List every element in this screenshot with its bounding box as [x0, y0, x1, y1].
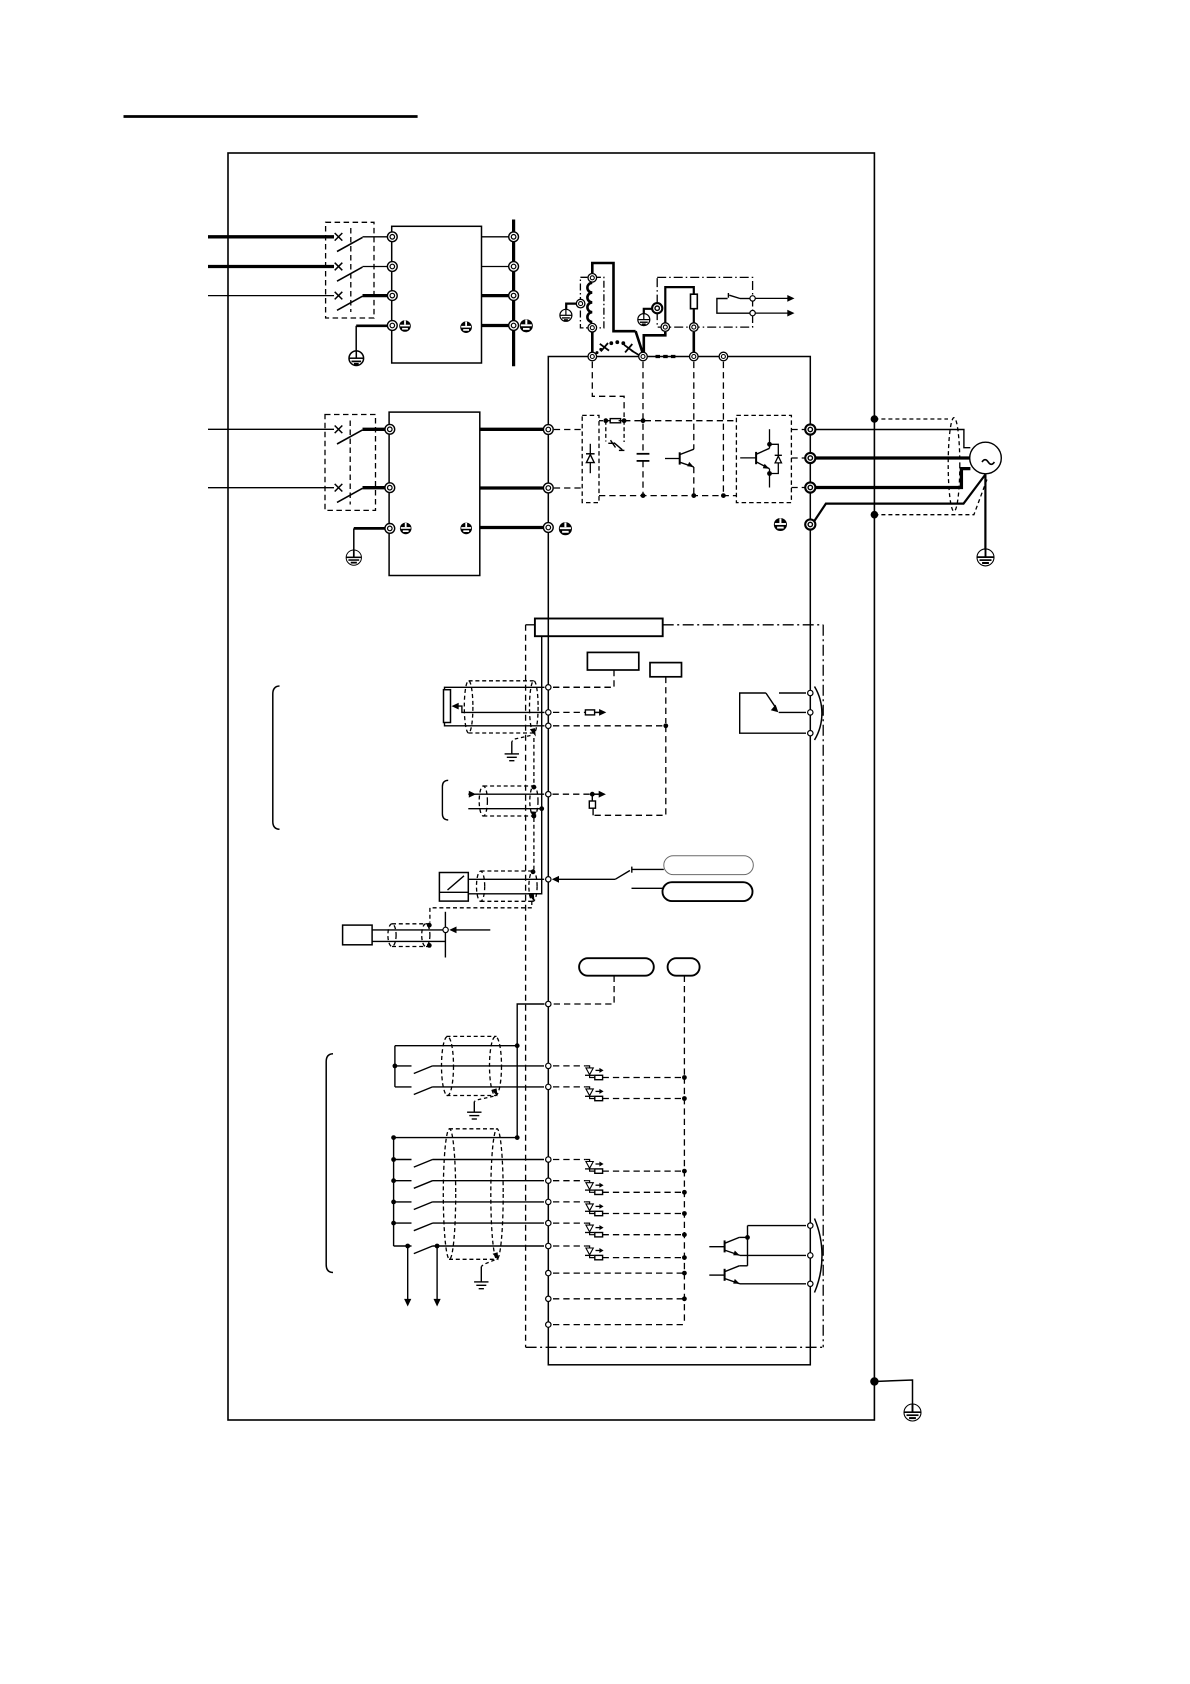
- charging resistor link from rectifier: [599, 420, 605, 422]
- inverter input bus bar: [512, 220, 515, 367]
- filter1 terminal in G: [387, 321, 397, 331]
- wire L2 input: [208, 265, 334, 268]
- terminal X5: [546, 1243, 551, 1248]
- capacitor lower dashed: [642, 461, 644, 496]
- FM arrow: [552, 876, 615, 883]
- enclosure ground dot: [870, 1377, 878, 1385]
- filter1 earth: [349, 351, 364, 366]
- rectifier box: [582, 415, 599, 502]
- wire DCR diagonal to terminal: [636, 331, 643, 353]
- Y bracket: [815, 1219, 823, 1293]
- pot shield ground: [505, 742, 519, 761]
- EMC filter 2 box: [389, 412, 480, 575]
- filter1 terminal in L1: [387, 232, 397, 242]
- run command stadium: [579, 958, 654, 976]
- meter shield drain arrow: [529, 894, 535, 902]
- shield junction dot bottom: [871, 511, 879, 519]
- wire terminal 11: [445, 723, 545, 726]
- DC reactor DCR box: [580, 277, 604, 328]
- DBR internal wire: [665, 287, 694, 322]
- motor: [970, 442, 1002, 474]
- thermal output wire B: [755, 310, 794, 317]
- CM dashed row: [553, 1271, 687, 1276]
- IGBT freewheel diode: [770, 444, 782, 473]
- filter1 output wire 2: [482, 266, 510, 268]
- group1 bus dot: [515, 1043, 520, 1048]
- terminal 11: [546, 723, 551, 728]
- DBR resistor lead: [693, 309, 695, 323]
- terminal X3: [546, 1199, 551, 1204]
- pulse device box: [343, 925, 373, 945]
- filter1 terminal in L2: [387, 262, 397, 272]
- motor cable shield ellipse: [948, 418, 960, 512]
- MCCB1 pole 2 contact: [335, 263, 387, 282]
- shield chain dashed from pot shield: [533, 738, 535, 785]
- DC bus top dashed: [624, 420, 736, 422]
- MCCB2 pole 2 contact: [335, 484, 385, 502]
- filter2 earth: [346, 550, 361, 565]
- run command link: [553, 976, 614, 1004]
- terminal REV: [546, 1084, 551, 1089]
- terminal 30B: [808, 690, 813, 695]
- pulse arrow: [449, 927, 490, 934]
- group2 rail dots: [391, 1157, 396, 1162]
- EMC filter 1 box: [392, 226, 482, 363]
- filter2 terminal in G: [385, 524, 395, 534]
- bus terminal S: [509, 262, 519, 272]
- filter1 output wire G: [482, 324, 510, 327]
- pot shield drain dashes: [512, 736, 531, 742]
- filter2 ground wire: [354, 527, 385, 530]
- terminal Y2: [808, 1281, 813, 1286]
- group2 common bus: [394, 1137, 518, 1139]
- group1 common bus: [395, 1045, 517, 1047]
- bus terminal T: [509, 291, 519, 301]
- terminal DX+: [546, 1296, 551, 1301]
- switch FWD: [395, 1066, 544, 1074]
- charging resistor node dots: [603, 418, 608, 423]
- common rail drop: [516, 1046, 518, 1138]
- IGBT emitter line: [769, 469, 771, 488]
- dashed input L1 to rectifier: [554, 429, 582, 431]
- opto X3: [553, 1202, 687, 1216]
- DBR ground wire: [644, 309, 653, 314]
- DBR ground terminal: [652, 303, 662, 313]
- meter shield top dot: [531, 869, 536, 874]
- shield chain dot: [532, 785, 537, 790]
- braking transistor: [665, 449, 694, 467]
- wire DBR2 to DB: [692, 332, 695, 353]
- terminal 30A: [808, 710, 813, 715]
- group1 shield drain dashes: [474, 1096, 493, 1101]
- filter1 ground wire: [356, 324, 387, 327]
- FM option 2 stadium: [663, 882, 753, 901]
- MCCB1 pole 1 contact: [335, 233, 387, 252]
- switch X1: [394, 1160, 544, 1168]
- shield junction dot top: [871, 415, 879, 423]
- Y1 collector link: [739, 1236, 747, 1238]
- relay 30 common path: [740, 693, 806, 733]
- dashed W out: [791, 487, 805, 489]
- X5 tap dots: [405, 1244, 410, 1249]
- bus PE symbol: [520, 319, 533, 332]
- node 11 drop dashed: [593, 726, 666, 816]
- filter2 output wire G: [480, 526, 544, 529]
- pulse vertical line: [444, 912, 446, 958]
- terminal 12: [546, 710, 551, 715]
- opto X5: [553, 1246, 687, 1260]
- digital input bracket: [326, 1054, 333, 1273]
- terminal X4: [546, 1220, 551, 1225]
- filter1 terminal in L3: [387, 291, 397, 301]
- opto X4: [553, 1223, 687, 1237]
- charging resistor: [605, 419, 624, 423]
- IGBT node dots: [767, 442, 772, 447]
- terminal 12 connector plug: [585, 710, 594, 715]
- motor cable shield dashes bottom: [874, 478, 987, 515]
- filter2 output wire 2: [480, 486, 544, 489]
- dashed N drop: [722, 362, 724, 496]
- wire aux input 2: [208, 487, 334, 489]
- pulse wire 1: [372, 929, 443, 931]
- DX- dashed row: [553, 1324, 684, 1326]
- sink jumper drop 2: [434, 1246, 441, 1307]
- control block 2: [650, 663, 682, 677]
- bypass contact box: [606, 421, 624, 442]
- terminal N(-): [719, 352, 728, 361]
- FM option 2 lead: [632, 887, 663, 889]
- terminal V: [805, 453, 815, 463]
- control boundary left connector: [526, 624, 535, 626]
- group1 shield ground: [467, 1102, 481, 1120]
- inverter left PE symbol: [559, 522, 572, 535]
- shield chain dashed to meter shield: [533, 818, 535, 870]
- FMA loop plug: [589, 794, 595, 815]
- control boundary right: [822, 625, 824, 1348]
- enclosure earth: [904, 1404, 921, 1421]
- bottom bus dots: [641, 493, 646, 498]
- IGBT module box: [736, 415, 791, 502]
- dashed input L2 to rectifier: [554, 487, 582, 489]
- pulse terminal circle: [443, 927, 448, 932]
- terminal 30C: [808, 731, 813, 736]
- wire U to motor: [815, 430, 970, 448]
- filter2 PE symbol right: [460, 523, 472, 535]
- terminal DB: [690, 352, 699, 361]
- control boundary bottom: [526, 1346, 824, 1348]
- frequency meter: [439, 873, 468, 902]
- bus terminal G: [509, 321, 519, 331]
- DBR terminal 2: [690, 323, 699, 332]
- pulse shield: [388, 924, 430, 947]
- braking resistor DBR option box: [657, 277, 752, 327]
- terminal FM: [546, 877, 551, 882]
- meter shield: [477, 871, 538, 901]
- terminal Y1: [808, 1253, 813, 1258]
- DCR coil: [587, 283, 592, 322]
- group2 left rail: [393, 1138, 395, 1246]
- pot shield: [464, 681, 538, 733]
- terminal U: [805, 424, 815, 434]
- Y common top wire: [748, 1225, 807, 1227]
- meter wire 1: [468, 878, 544, 880]
- terminal P(+): [639, 352, 648, 361]
- terminal PLC: [546, 1001, 551, 1006]
- keypad link line: [528, 636, 542, 894]
- filter2 output wire 1: [480, 428, 544, 431]
- terminal 13: [546, 685, 551, 690]
- Y2 emitter wire: [740, 1283, 806, 1285]
- DX+ dashed row: [553, 1296, 687, 1301]
- group1 rail dot: [393, 1064, 398, 1069]
- filter2 PE symbol left: [400, 523, 412, 535]
- meter wire 2: [468, 893, 541, 895]
- pot shield drain arrow: [530, 728, 536, 736]
- opto REV: [553, 1087, 687, 1101]
- MCCB2 pole 1 contact: [335, 426, 385, 445]
- group2 shield ground: [474, 1267, 488, 1289]
- motor earth: [977, 549, 994, 566]
- filter1 output wire 3: [482, 294, 510, 297]
- switch X4: [394, 1223, 544, 1231]
- circuit breaker MCCB1: [326, 222, 374, 318]
- control block 1: [587, 652, 638, 670]
- control boundary top: [663, 624, 824, 626]
- control block 2 dashed link: [665, 677, 667, 723]
- sink source stadium: [668, 958, 700, 976]
- terminal X1: [546, 1157, 551, 1162]
- opto return bus: [683, 1078, 685, 1325]
- FM option 1 stadium: [664, 856, 754, 875]
- FMA shield bottom dot: [532, 814, 537, 819]
- pulse wire 2: [372, 940, 445, 942]
- relay 30 blade: [766, 693, 778, 712]
- terminal 12 link dashed: [553, 711, 585, 713]
- enclosure ground wire: [874, 1380, 912, 1406]
- filter2 terminal in 1: [385, 424, 395, 434]
- wire DCR top to P(+): [592, 263, 635, 331]
- transistor Y1: [709, 1237, 740, 1255]
- relay 30 NC contact: [779, 692, 806, 694]
- pulse shield dots: [427, 923, 432, 928]
- Y collector dot: [745, 1235, 750, 1240]
- wire DBR1 to P(+): [644, 332, 666, 353]
- DCR terminal bottom: [588, 323, 597, 332]
- DC bus bottom dashed: [599, 495, 736, 497]
- DCR earth: [560, 309, 572, 321]
- wire L3 input: [208, 295, 334, 297]
- dashed V out: [791, 457, 805, 459]
- filter1 output wire 1: [482, 236, 510, 238]
- terminal P1: [588, 352, 597, 361]
- meter shield chain dashes: [430, 901, 532, 923]
- IGBT collector line: [769, 429, 771, 448]
- transistor Y2: [709, 1266, 740, 1284]
- DCR terminal top: [588, 274, 597, 283]
- group2 shield drain arrow: [493, 1252, 499, 1260]
- relay bracket: [815, 687, 822, 741]
- terminal G inverter left: [543, 523, 553, 533]
- DBR terminal 1: [661, 323, 670, 332]
- FMA wire 1: [468, 791, 544, 798]
- analog out bracket: [442, 780, 448, 820]
- switch X5: [394, 1246, 544, 1254]
- FM selector switch: [615, 867, 664, 880]
- motor ground drop: [984, 475, 986, 550]
- wire V to motor: [815, 456, 969, 459]
- terminal X2: [546, 1178, 551, 1183]
- DCR ground terminal: [576, 299, 585, 308]
- PLC wire to common: [517, 1004, 544, 1046]
- FMA node dot: [590, 792, 595, 797]
- relay 30 NO contact: [779, 711, 806, 713]
- bus node P(+) dot: [641, 418, 646, 423]
- sink jumper drop 1: [404, 1246, 411, 1307]
- Y1 emitter wire: [740, 1254, 806, 1256]
- MCCB1 pole 3 contact: [335, 292, 387, 310]
- thermal output wire A: [755, 295, 794, 302]
- FMA shield bottom drain arrow: [530, 811, 536, 818]
- DBR resistor: [691, 294, 698, 309]
- group1 left rail: [394, 1046, 396, 1087]
- smoothing capacitor: [637, 454, 650, 461]
- terminal Y common: [808, 1223, 813, 1228]
- DCR ground wire: [566, 304, 576, 310]
- inverter main box: [548, 357, 810, 1365]
- potentiometer: [444, 690, 451, 723]
- dashed P(+) drop: [642, 362, 644, 454]
- group2 bus dots: [391, 1135, 396, 1140]
- filter1 PE symbol left: [399, 320, 411, 332]
- terminal FWD: [546, 1063, 551, 1068]
- FMA wire 2: [468, 808, 541, 810]
- terminal 13 link dashed: [553, 686, 614, 688]
- DBR earth: [638, 314, 650, 326]
- wire terminal 13: [445, 687, 545, 689]
- jumper bar P1-P(+) removed: [596, 340, 640, 355]
- FMA arrow: [592, 791, 606, 798]
- switch X2: [394, 1181, 544, 1189]
- thermal contact terminal A: [750, 296, 755, 301]
- FMA shield: [479, 786, 538, 816]
- Y2 collector link: [739, 1265, 747, 1267]
- wire L1 input: [208, 235, 334, 238]
- internal DB link dashes: [656, 355, 678, 358]
- terminal W: [805, 482, 815, 492]
- sink source link: [683, 976, 685, 1076]
- wire W to motor: [815, 469, 970, 488]
- DBR thermal contact: [717, 293, 750, 313]
- control block 1 dashed link: [554, 670, 615, 687]
- group1 shield drain arrow: [492, 1088, 498, 1096]
- group2 shield drain dashes: [481, 1260, 494, 1267]
- terminal L1/R inverter: [543, 425, 553, 435]
- opto X2: [553, 1181, 687, 1195]
- terminal L2/S inverter: [543, 483, 553, 493]
- keypad bar: [535, 619, 663, 637]
- terminal 12 arrow: [595, 709, 607, 716]
- analog input bracket: [273, 686, 280, 829]
- terminal CM: [546, 1270, 551, 1275]
- Y common vertical: [747, 1226, 749, 1266]
- wire aux input 1: [208, 428, 334, 430]
- title underline: [124, 115, 418, 118]
- node 11 dot: [663, 723, 668, 728]
- thermal contact terminal B: [750, 310, 755, 315]
- bus terminal R: [509, 232, 519, 242]
- braking transistor emitter dashed: [693, 467, 695, 496]
- enclosure outer box: [228, 153, 874, 1420]
- group2 shield: [443, 1129, 503, 1260]
- rectifier diode: [586, 444, 595, 473]
- terminal DX-: [546, 1322, 551, 1327]
- terminal FMA dashed: [553, 793, 593, 795]
- IGBT transistor: [740, 448, 769, 469]
- terminal FMA: [546, 792, 551, 797]
- opto FWD: [553, 1066, 687, 1080]
- group1 shield: [442, 1036, 502, 1095]
- FMA wire2 junction dot: [539, 806, 544, 811]
- output PE symbol: [774, 518, 787, 531]
- filter2 terminal in 2: [385, 483, 395, 493]
- opto X1: [553, 1160, 687, 1174]
- wire DCR bottom to P1: [591, 333, 594, 353]
- circuit breaker MCCB2: [325, 415, 376, 511]
- motor cable shield dashes top: [874, 418, 948, 420]
- filter1 PE symbol right: [460, 321, 472, 333]
- dashed P1 internal link: [592, 362, 624, 417]
- switch X3: [394, 1202, 544, 1210]
- potentiometer wiper: [452, 703, 545, 713]
- wire G to motor: [814, 475, 985, 522]
- bypass contact: [608, 440, 624, 450]
- control boundary left: [525, 625, 527, 1348]
- dashed DB drop: [693, 362, 695, 449]
- switch REV: [395, 1087, 544, 1095]
- terminal 11 link dashed: [553, 725, 666, 727]
- terminal G output: [805, 519, 815, 529]
- dashed U out: [791, 429, 805, 431]
